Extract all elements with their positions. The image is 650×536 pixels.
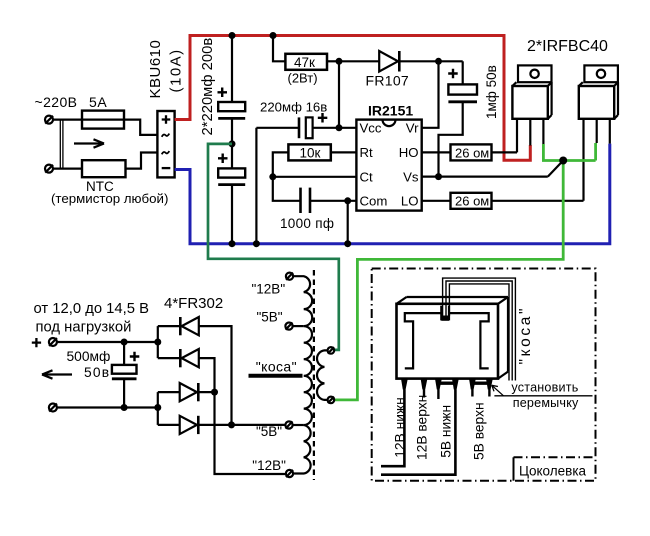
NTC thermistor	[82, 160, 126, 177]
pin 3 5V lower	[435, 379, 442, 399]
node D2-D5 junction	[228, 421, 235, 428]
svg-text:26 ом: 26 ом	[455, 194, 489, 209]
wire kosa tap	[249, 374, 303, 378]
pinout box dashed border	[372, 269, 596, 481]
node Ct junction	[269, 173, 276, 180]
svg-text:5А: 5А	[89, 94, 107, 110]
terminal output plus	[49, 338, 57, 346]
svg-text:Com: Com	[360, 194, 388, 209]
node Com ground	[344, 240, 351, 247]
pin 6 5V upper b	[486, 379, 493, 397]
svg-text:Vs: Vs	[403, 170, 419, 185]
wire Com to ground	[347, 201, 349, 244]
label compartment tick	[513, 457, 515, 480]
bridge rectifier KBU610	[157, 111, 174, 177]
svg-text:"12В": "12В"	[252, 458, 286, 473]
wire Vcc branch down	[338, 61, 340, 128]
diode D3 FR302	[158, 349, 286, 474]
fuse F1 5A	[82, 111, 124, 129]
svg-text:12В нижн: 12В нижн	[393, 397, 408, 458]
svg-text:220мф 16в: 220мф 16в	[260, 100, 327, 115]
svg-text:4*FR302: 4*FR302	[164, 295, 223, 312]
capacitor C1 220uF 200V	[218, 36, 246, 144]
arrow output direction	[42, 370, 72, 378]
wire kosa bundle	[443, 278, 516, 380]
pin 5 5V upper	[469, 379, 476, 397]
svg-text:1000 пф: 1000 пф	[280, 216, 334, 231]
arrow current direction	[74, 139, 104, 147]
svg-text:LO: LO	[401, 194, 419, 209]
svg-text:IR2151: IR2151	[368, 103, 413, 119]
node FR107 cathode	[435, 58, 442, 65]
svg-text:47к: 47к	[294, 55, 315, 70]
terminal output minus	[49, 404, 57, 412]
capacitor C5 1uF 50V bootstrap	[439, 61, 500, 176]
node Vs junction	[435, 173, 442, 180]
svg-text:"5В": "5В"	[257, 309, 283, 324]
label output voltage	[32, 301, 149, 408]
diode D1 FR107	[339, 51, 463, 89]
transistor Q2 IRFBC40	[579, 65, 618, 200]
node minus diodes	[154, 404, 161, 411]
label KBU610 (10A)	[147, 40, 185, 99]
svg-text:Цоколевка: Цоколевка	[519, 463, 587, 478]
svg-text:10к: 10к	[300, 146, 321, 161]
pin 4 5V lower b	[381, 379, 459, 475]
winding labels	[252, 282, 298, 474]
wire Vs row	[422, 161, 564, 177]
wire Ct	[273, 176, 357, 178]
svg-text:перемычку: перемычку	[513, 396, 579, 410]
svg-text:Ct: Ct	[360, 170, 374, 185]
pin labels rotated	[393, 395, 487, 460]
capacitor C2 220uF 200V	[218, 144, 245, 244]
node R1 out / Vcc branch	[336, 58, 343, 65]
svg-text:12В верхн: 12В верхн	[415, 395, 430, 460]
wire minus row	[57, 406, 158, 408]
svg-text:"5В": "5В"	[256, 424, 282, 439]
svg-text:Rt: Rt	[360, 145, 374, 160]
terminal 5V lower	[285, 421, 292, 428]
svg-text:(термистор любой): (термистор любой)	[51, 191, 168, 206]
svg-text:(10A): (10A)	[168, 48, 185, 92]
pin 2 12V upper	[421, 379, 428, 398]
node cap top on rail	[229, 32, 236, 39]
wire lead slot	[440, 306, 442, 321]
terminal input N	[45, 165, 53, 173]
wire D2-D3 cathode bus	[157, 326, 159, 358]
node plus cap	[121, 339, 128, 346]
wire green half-bridge midpoint	[334, 143, 595, 400]
svg-text:50в: 50в	[84, 365, 110, 380]
svg-text:26 ом: 26 ом	[455, 145, 489, 160]
wire input cord	[60, 120, 63, 169]
terminal primary bottom	[328, 397, 335, 404]
pin 1 12V lower	[381, 379, 408, 467]
svg-text:5В верхн: 5В верхн	[472, 402, 487, 460]
svg-text:"коса": "коса"	[517, 306, 534, 365]
wire teal cap midpoint to primary top	[208, 144, 339, 350]
node D3 junction	[211, 389, 218, 396]
transformer core	[313, 270, 315, 480]
node x256 ground	[253, 240, 260, 247]
node Com junction	[344, 197, 351, 204]
resistor R2 10k	[273, 144, 357, 176]
svg-text:HO: HO	[399, 145, 419, 160]
diode D4 FR302	[158, 383, 215, 401]
wire Vcc decoupling to ground	[255, 128, 257, 244]
wire 5V upper tap	[293, 325, 304, 327]
svg-text:Vcc: Vcc	[360, 121, 382, 136]
terminal primary top	[328, 347, 335, 354]
node cap midpoint	[229, 140, 236, 147]
svg-text:установить: установить	[511, 381, 578, 395]
wire plus row	[57, 341, 158, 343]
node Vcc	[336, 124, 343, 131]
svg-text:"коса": "коса"	[256, 359, 297, 375]
transformer T1 secondary	[249, 270, 335, 480]
wire L to bridge	[54, 120, 158, 135]
jumper pins 5-6	[472, 382, 489, 385]
resistor R1 47k 2W	[273, 36, 339, 86]
wire secondary winding	[293, 276, 312, 473]
bobbin window right	[449, 313, 489, 368]
wire D4-D5 anode bus	[157, 392, 159, 425]
svg-text:от 12,0 до 14,5 В: от 12,0 до 14,5 В	[34, 301, 150, 317]
wire blue ground rail	[175, 144, 610, 244]
svg-text:5В нижн: 5В нижн	[439, 405, 454, 458]
svg-text:Vr: Vr	[406, 121, 419, 136]
op-amp U1 IR2151	[356, 103, 421, 211]
terminal 12V bottom	[286, 470, 293, 477]
svg-text:1мф 50в: 1мф 50в	[484, 65, 499, 119]
jumper pins 3-4	[438, 382, 455, 385]
svg-text:~220В: ~220В	[35, 94, 78, 110]
node cap bottom on ground	[229, 240, 236, 247]
label install jumper	[492, 381, 593, 410]
capacitor C3 220uF 16V	[256, 100, 356, 139]
svg-text:"12В": "12В"	[252, 282, 286, 297]
wire red +310V rail	[175, 36, 531, 161]
svg-text:под нагрузкой: под нагрузкой	[36, 319, 132, 335]
wire 5V lower tap	[293, 424, 304, 426]
diode D2 FR302 top	[158, 317, 232, 425]
capacitor C4 1000pF	[273, 177, 357, 231]
svg-text:2*IRFBC40: 2*IRFBC40	[527, 38, 608, 55]
wire Vr to bootstrap	[422, 61, 439, 128]
node half-bridge midpoint	[559, 157, 567, 165]
node plus diodes	[154, 339, 161, 346]
terminal 5V upper	[285, 323, 292, 330]
bobbin window left	[405, 313, 442, 368]
wire primary winding	[317, 350, 328, 400]
capacitor C6 500uF 50V	[67, 342, 140, 408]
node minus cap	[121, 404, 128, 411]
svg-text:KBU610: KBU610	[147, 40, 164, 99]
diode D5 FR302 bottom	[158, 416, 286, 434]
node R1 top on rail	[270, 32, 277, 39]
svg-text:FR107: FR107	[366, 73, 410, 89]
resistor R3 26ohm HO gate	[422, 144, 517, 160]
transistor Q1 IRFBC40	[512, 65, 551, 152]
terminal input L	[45, 116, 53, 124]
terminal 12V top	[286, 273, 293, 280]
svg-text:500мф: 500мф	[67, 349, 111, 364]
svg-text:2*220мф 200в: 2*220мф 200в	[200, 38, 216, 136]
transformer bobbin drawing	[397, 297, 509, 379]
svg-text:(2Вт): (2Вт)	[288, 71, 318, 86]
resistor R4 26ohm LO gate	[422, 193, 584, 209]
wire N to bridge	[54, 153, 158, 169]
